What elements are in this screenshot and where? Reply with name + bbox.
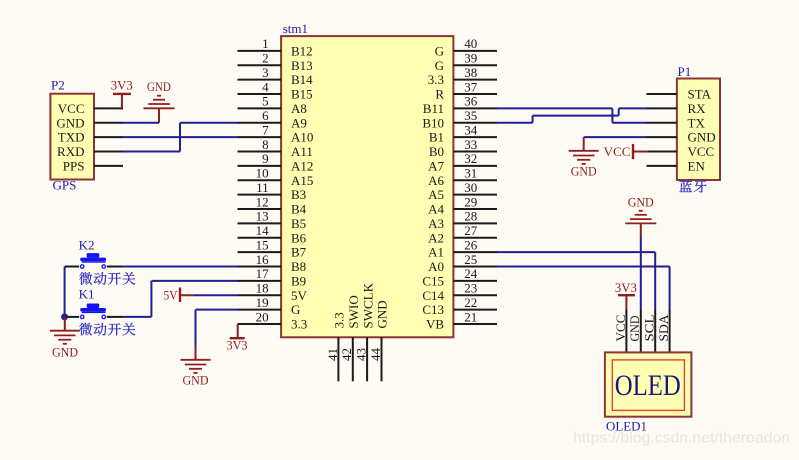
power port VCC (P1) lead (633, 151, 648, 153)
svg-text:38: 38 (464, 65, 477, 80)
svg-text:25: 25 (464, 252, 477, 267)
svg-text:C13: C13 (422, 302, 444, 317)
stm1 pin 30 (A5) stub (453, 194, 497, 196)
stm1 pin 18 (5V) stub (238, 294, 282, 296)
stm1 pin 11 (B3) stub (238, 194, 282, 196)
svg-text:GND: GND (627, 316, 642, 342)
svg-text:G: G (435, 44, 444, 59)
svg-text:RX: RX (688, 101, 707, 116)
svg-text:36: 36 (464, 94, 478, 109)
svg-text:3V3: 3V3 (111, 78, 133, 93)
junction K1/K2/GND (61, 313, 68, 320)
wire stm1 G to ground vertical (195, 310, 197, 347)
wire B11 vertical (611, 108, 613, 122)
svg-text:7: 7 (262, 122, 269, 137)
ground symbol (P1) (569, 137, 599, 164)
stm1 pin 24 (C15) stub (453, 280, 497, 282)
stm1 pin 9 (A12) stub (238, 165, 282, 167)
P2 pin PPS stub (94, 165, 123, 167)
svg-text:3V3: 3V3 (227, 338, 248, 353)
stm1 pin 2 (B13) stub (238, 64, 282, 66)
ground symbol (OLED) (625, 211, 656, 237)
wire B10 vertical 1 (532, 116, 534, 123)
stm1 pin 35 (B10) stub (453, 122, 497, 124)
stm1 pin 44 (GND) stub (381, 337, 383, 381)
power port 3V3 (P2) bar (113, 93, 131, 95)
P1 pin EN stub (647, 165, 677, 167)
svg-text:A12: A12 (291, 159, 313, 174)
svg-text:13: 13 (256, 209, 269, 224)
svg-text:A0: A0 (428, 259, 444, 274)
svg-text:A9: A9 (291, 115, 307, 130)
P2 pin TXD stub (94, 136, 123, 138)
svg-text:P1: P1 (678, 64, 692, 79)
OLED pin SCL stub (654, 310, 656, 353)
svg-text:A1: A1 (428, 245, 444, 260)
svg-text:RXD: RXD (57, 144, 84, 159)
stm1 pin 34 (B1) stub (453, 136, 497, 138)
svg-text:B15: B15 (291, 87, 313, 102)
svg-text:21: 21 (464, 309, 477, 324)
module OLED1 body (605, 352, 692, 416)
svg-text:GND: GND (183, 373, 209, 388)
svg-text:3: 3 (262, 65, 269, 80)
stm1 pin 29 (A4) stub (453, 208, 497, 210)
svg-text:B11: B11 (423, 101, 444, 116)
svg-text:B4: B4 (291, 202, 307, 217)
power port VCC (P1) bar (632, 144, 634, 159)
stm1 pin 8 (A11) stub (238, 151, 282, 153)
stm1 pin 12 (B4) stub (238, 208, 282, 210)
svg-text:43: 43 (354, 348, 369, 361)
svg-text:11: 11 (256, 180, 269, 195)
svg-text:VCC: VCC (58, 101, 85, 116)
stm1 pin 7 (A10) stub (238, 136, 282, 138)
svg-text:A4: A4 (428, 202, 444, 217)
svg-text:GND: GND (571, 164, 597, 179)
svg-text:B13: B13 (291, 58, 313, 73)
power port 5V bar (179, 288, 181, 303)
comment K1 微动开关 (79, 323, 135, 336)
stm1 pin 21 (VB) stub (453, 323, 497, 325)
svg-text:C14: C14 (422, 288, 444, 303)
wire stm1 A1 horizontal (497, 251, 655, 253)
svg-text:26: 26 (464, 237, 478, 252)
P1 pin VCC stub (647, 151, 677, 153)
svg-text:GND: GND (688, 130, 716, 145)
stm1 pin 20 (3.3) stub (238, 323, 282, 325)
svg-text:B9: B9 (291, 274, 306, 289)
svg-text:5V: 5V (164, 287, 179, 302)
svg-text:28: 28 (464, 209, 477, 224)
svg-text:A2: A2 (428, 230, 444, 245)
svg-text:SDA: SDA (656, 314, 671, 342)
svg-text:VCC: VCC (613, 315, 628, 342)
stm1 pin 1 (B12) stub (238, 50, 282, 52)
svg-text:A3: A3 (428, 216, 444, 231)
ground symbol (K1) (50, 317, 80, 344)
stm1 pin 26 (A1) stub (453, 251, 497, 253)
wire B11 to P1 TX (612, 122, 646, 124)
svg-text:C15: C15 (422, 274, 444, 289)
stm1 pin 5 (A8) stub (238, 107, 282, 109)
svg-text:GPS: GPS (53, 178, 77, 193)
svg-text:40: 40 (464, 36, 477, 51)
P2 pin RXD stub (94, 151, 123, 153)
svg-text:6: 6 (262, 108, 269, 123)
svg-text:G: G (435, 58, 444, 73)
switch K2 button cap (80, 253, 106, 263)
wire 5V to stm1 (194, 294, 238, 296)
stm1 pin 14 (B6) stub (238, 237, 282, 239)
svg-text:SWIO: SWIO (346, 295, 361, 328)
stm1 pin 17 (B9) stub (238, 280, 282, 282)
power port 3V3 (P2) stem (121, 94, 123, 109)
svg-text:A5: A5 (428, 187, 444, 202)
switch K1 left terminal circle (80, 315, 84, 319)
svg-text:15: 15 (256, 237, 269, 252)
svg-text:TXD: TXD (58, 130, 85, 145)
P2 pin GND stub (94, 122, 123, 124)
svg-text:18: 18 (256, 281, 269, 296)
comment P1 蓝牙 (679, 180, 706, 193)
svg-text:5: 5 (262, 94, 269, 109)
stm1 pin 23 (C14) stub (453, 294, 497, 296)
svg-text:27: 27 (464, 223, 478, 238)
svg-text:B12: B12 (291, 44, 313, 59)
svg-text:8: 8 (262, 137, 269, 152)
svg-text:A8: A8 (291, 101, 307, 116)
wire stm1 A0 horizontal (497, 266, 670, 268)
svg-text:10: 10 (256, 166, 269, 181)
svg-text:PPS: PPS (63, 159, 85, 174)
stm1 pin 6 (A9) stub (238, 122, 282, 124)
svg-text:1: 1 (262, 36, 269, 51)
svg-text:3.3: 3.3 (428, 72, 444, 87)
svg-text:29: 29 (464, 194, 477, 209)
stm1 pin 13 (B5) stub (238, 222, 282, 224)
stm1 pin 32 (A7) stub (453, 165, 497, 167)
wire B10 horizontal 1 (497, 122, 533, 124)
P1 pin RX stub (647, 107, 677, 109)
stm1 pin 43 (SWCLK) stub (366, 337, 368, 381)
svg-text:B8: B8 (291, 259, 306, 274)
svg-text:A15: A15 (291, 173, 313, 188)
svg-text:B10: B10 (422, 115, 444, 130)
switch K1 right terminal circle (102, 315, 106, 319)
svg-text:A6: A6 (428, 173, 444, 188)
stm1 pin 28 (A3) stub (453, 222, 497, 224)
svg-text:B1: B1 (429, 130, 444, 145)
switch K2 right terminal circle (102, 265, 106, 269)
wire P1 GND to ground (584, 136, 647, 138)
wire P2 GND to ground (123, 122, 159, 124)
stm1 pin 16 (B8) stub (238, 266, 282, 268)
svg-text:B7: B7 (291, 245, 307, 260)
svg-text:19: 19 (256, 295, 269, 310)
svg-text:https://blog.csdn.net/theroado: https://blog.csdn.net/theroadon (573, 431, 790, 447)
svg-text:SCL: SCL (642, 314, 657, 341)
svg-text:17: 17 (256, 266, 270, 281)
wire stm1 G to ground horizontal (196, 309, 238, 311)
svg-text:2: 2 (262, 51, 269, 66)
P1 pin TX stub (647, 122, 677, 124)
wire K1 to stm1 B9 (151, 280, 237, 282)
P1 pin GND stub (647, 136, 677, 138)
svg-text:42: 42 (339, 348, 354, 361)
svg-text:B14: B14 (291, 72, 313, 87)
power port 5V lead (180, 294, 194, 296)
svg-text:STA: STA (688, 87, 712, 102)
svg-text:GND: GND (56, 115, 84, 130)
wire A0 to OLED SDA (669, 267, 671, 310)
svg-text:B0: B0 (429, 144, 444, 159)
svg-text:GND: GND (375, 300, 390, 328)
ground symbol (P2) (144, 96, 175, 123)
svg-text:9: 9 (262, 151, 269, 166)
MCU stm1 body (281, 36, 453, 337)
switch K2 left terminal circle (80, 265, 84, 269)
svg-text:VCC: VCC (688, 144, 715, 159)
svg-text:3.3: 3.3 (291, 317, 307, 332)
power port 3V3 (OLED) stem (625, 295, 627, 309)
svg-text:TX: TX (688, 115, 706, 130)
wire P2 RXD vertical (179, 123, 181, 152)
stm1 pin 19 (G) stub (238, 309, 282, 311)
wire B10 to P1 RX (619, 107, 647, 109)
svg-text:20: 20 (256, 309, 269, 324)
svg-text:16: 16 (256, 252, 270, 267)
switch K2 left pin (65, 266, 80, 268)
power port 3V3 (pin20) stem (237, 324, 239, 337)
wire P2 TXD to stm1 A10 (123, 136, 238, 138)
stm1 pin 37 (R) stub (453, 93, 497, 95)
svg-text:R: R (435, 87, 444, 102)
switch K2 right pin (107, 266, 124, 268)
svg-text:B3: B3 (291, 187, 306, 202)
svg-text:stm1: stm1 (283, 21, 308, 36)
wire A1 to OLED SCL (654, 252, 656, 309)
svg-text:35: 35 (464, 108, 477, 123)
switch K1 right pin (107, 316, 124, 318)
svg-text:A11: A11 (291, 144, 313, 159)
power port 3V3 (pin20) bar (230, 337, 245, 339)
svg-text:A7: A7 (428, 159, 444, 174)
stm1 pin 38 (3.3) stub (453, 79, 497, 81)
svg-text:SWCLK: SWCLK (360, 282, 375, 328)
OLED pin VCC stub (625, 310, 627, 353)
stm1 pin 40 (G) stub (453, 50, 497, 52)
OLED1 inner frame (612, 360, 684, 411)
connector P1 body (677, 79, 720, 181)
svg-text:VB: VB (426, 317, 444, 332)
stm1 pin 31 (A6) stub (453, 179, 497, 181)
svg-text:33: 33 (464, 137, 477, 152)
wire B10 vertical 2 (618, 108, 620, 115)
wire ground to OLED GND (640, 237, 642, 310)
comment K2 微动开关 (79, 272, 135, 285)
svg-text:B6: B6 (291, 230, 307, 245)
wire B11 horizontal (497, 107, 612, 109)
stm1 pin 36 (B11) stub (453, 107, 497, 109)
svg-text:4: 4 (262, 79, 269, 94)
stm1 pin 4 (B15) stub (238, 93, 282, 95)
OLED pin GND stub (640, 310, 642, 353)
stm1 pin 39 (G) stub (453, 64, 497, 66)
svg-text:P2: P2 (51, 78, 65, 93)
svg-text:39: 39 (464, 51, 477, 66)
wire K2 left vertical to K1 (64, 267, 66, 317)
svg-text:B5: B5 (291, 216, 306, 231)
svg-text:3V3: 3V3 (615, 280, 637, 295)
stm1 pin 25 (A0) stub (453, 266, 497, 268)
svg-text:14: 14 (256, 223, 270, 238)
stm1 pin 15 (B7) stub (238, 251, 282, 253)
svg-text:OLED: OLED (615, 369, 681, 402)
wire RXD to stm1 A9 (180, 122, 238, 124)
power port 3V3 (OLED) bar (618, 294, 635, 296)
svg-text:44: 44 (368, 348, 383, 362)
wire P2 RXD horizontal (123, 151, 180, 153)
svg-text:22: 22 (464, 295, 477, 310)
stm1 pin 3 (B14) stub (238, 79, 282, 81)
svg-text:3.3: 3.3 (332, 312, 347, 328)
switch K1 left pin (65, 316, 80, 318)
svg-text:31: 31 (464, 166, 477, 181)
stm1 pin 27 (A2) stub (453, 237, 497, 239)
stm1 pin 10 (A15) stub (238, 179, 282, 181)
svg-text:EN: EN (688, 159, 706, 174)
stm1 pin 42 (SWIO) stub (352, 337, 354, 381)
svg-text:41: 41 (325, 348, 340, 361)
OLED pin SDA stub (669, 310, 671, 353)
svg-text:K2: K2 (79, 238, 95, 253)
stm1 pin 33 (B0) stub (453, 151, 497, 153)
svg-text:23: 23 (464, 281, 477, 296)
wire K2 right to stm1 B8 (124, 266, 238, 268)
wire B10 middle horizontal (533, 115, 619, 117)
svg-text:32: 32 (464, 151, 477, 166)
connector P2 body (50, 94, 94, 180)
svg-text:GND: GND (628, 194, 654, 209)
svg-text:34: 34 (464, 122, 478, 137)
svg-text:VCC: VCC (604, 144, 631, 159)
switch K1 button cap (80, 304, 106, 314)
svg-text:GND: GND (52, 345, 78, 360)
svg-text:12: 12 (256, 194, 269, 209)
stm1 pin 41 (3.3) stub (337, 337, 339, 381)
svg-text:5V: 5V (291, 288, 308, 303)
svg-text:G: G (291, 302, 300, 317)
svg-text:37: 37 (464, 79, 478, 94)
wire K1 vertical to B9 row (150, 281, 152, 317)
P1 pin STA stub (647, 93, 677, 95)
wire K1 right horizontal (124, 316, 152, 318)
svg-text:K1: K1 (79, 286, 95, 301)
svg-text:24: 24 (464, 266, 478, 281)
svg-text:A10: A10 (291, 130, 313, 145)
svg-text:30: 30 (464, 180, 477, 195)
ground symbol (pin19) (181, 347, 211, 373)
P2 pin VCC stub (94, 107, 123, 109)
stm1 pin 22 (C13) stub (453, 309, 497, 311)
svg-text:GND: GND (147, 79, 171, 94)
